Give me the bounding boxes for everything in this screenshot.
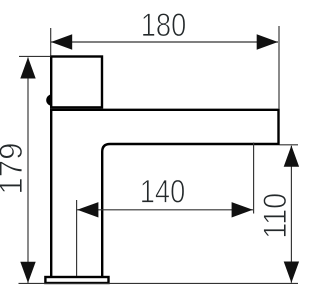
dimension 140: right arrowhead <box>232 202 253 217</box>
dimension 110: value label (rotated) <box>257 193 293 239</box>
dimension 180: right arrowhead <box>257 34 278 49</box>
dimension 179: top extension line <box>19 55 51 57</box>
base plate <box>45 277 108 283</box>
dimension 180: left arrowhead <box>51 34 72 49</box>
dimension 140: value label <box>140 174 186 210</box>
dimension 140: left arrowhead <box>77 202 98 217</box>
dimension 110: dimension line <box>290 146 292 283</box>
dimension 140: right extension line <box>253 143 255 214</box>
dimension 180: left extension line <box>50 28 52 55</box>
dimension 180: value label <box>141 7 187 43</box>
dimension 110: bottom arrowhead <box>284 262 299 283</box>
svg-text:179: 179 <box>0 143 29 195</box>
handle square <box>51 57 102 108</box>
faucet body (column and spout outline) <box>51 110 278 277</box>
dimension 140: left extension line <box>76 200 78 276</box>
dimension 179: dimension line <box>27 58 29 283</box>
svg-text:110: 110 <box>257 193 293 239</box>
dimension 179: top arrowhead <box>20 57 35 78</box>
dimension 179: bottom arrowhead <box>20 262 35 283</box>
dimension 180: right extension line <box>278 26 280 109</box>
svg-text:140: 140 <box>140 174 186 210</box>
dimension 179: value label (rotated) <box>0 143 29 195</box>
dimension 110: top arrowhead <box>284 146 299 167</box>
dimension 180: dimension line <box>51 41 278 43</box>
dimension 110: top extension line <box>280 144 299 146</box>
handle knob dot <box>46 94 57 105</box>
dimension 140: dimension line <box>77 209 253 211</box>
ground line <box>19 282 299 284</box>
svg-text:180: 180 <box>141 7 187 43</box>
